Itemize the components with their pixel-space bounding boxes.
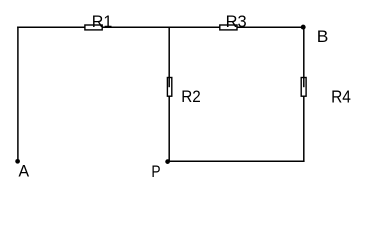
svg-text:B: B	[317, 27, 329, 46]
wire middle vertical through R2 down to node P	[168, 27, 170, 161]
resistor R4	[301, 77, 351, 107]
node A terminal dot	[15, 159, 20, 164]
svg-text:P: P	[151, 162, 160, 181]
resistor R1	[85, 12, 112, 31]
node P junction dot	[165, 159, 170, 164]
svg-text:R3: R3	[226, 12, 247, 31]
resistor R2	[167, 77, 200, 106]
svg-text:R4: R4	[331, 87, 351, 107]
wire left vertical down to node A	[17, 26, 19, 160]
svg-text:R2: R2	[181, 87, 201, 106]
svg-text:R1: R1	[92, 12, 113, 31]
wire top horizontal A-corner to B	[17, 26, 304, 28]
wire right vertical from node B through R4	[303, 26, 305, 162]
wire bottom horizontal node P to right corner	[168, 160, 305, 162]
resistor R3	[220, 12, 247, 31]
svg-text:A: A	[19, 162, 30, 181]
node B junction dot	[301, 25, 306, 30]
